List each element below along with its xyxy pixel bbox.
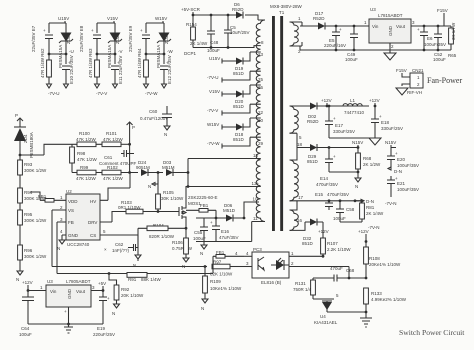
svg-text:47K 1/2W: 47K 1/2W <box>77 157 98 162</box>
junction <box>67 323 70 326</box>
svg-text:R52D: R52D <box>313 16 325 21</box>
svg-text:300K 1/2W: 300K 1/2W <box>24 218 47 223</box>
inductor L1 <box>343 98 365 115</box>
svg-text:+5V: +5V <box>98 281 106 286</box>
svg-text:+: + <box>379 114 382 119</box>
capacitor C5 <box>224 14 250 49</box>
capacitor E11 <box>111 56 123 84</box>
wire HV <box>100 173 130 201</box>
resistor R81 <box>354 199 384 222</box>
resistor R65 <box>448 22 457 58</box>
svg-text:Vin: Vin <box>372 24 379 29</box>
svg-text:-7V-W: -7V-W <box>145 91 158 96</box>
junction <box>48 53 51 56</box>
svg-text:15: 15 <box>253 153 259 158</box>
capacitor C48 <box>207 14 220 53</box>
ground <box>360 318 372 327</box>
svg-text:26: 26 <box>258 85 264 90</box>
svg-text:EL816 (B): EL816 (B) <box>261 280 282 285</box>
svg-text:L7805ABDT: L7805ABDT <box>66 279 91 284</box>
svg-text:N: N <box>57 246 60 251</box>
svg-text:2SK2225-60-E: 2SK2225-60-E <box>188 195 218 200</box>
led <box>271 258 289 270</box>
svg-text:2K 1/4W: 2K 1/4W <box>190 41 208 46</box>
svg-text:25: 25 <box>258 77 264 82</box>
ground N <box>148 180 158 189</box>
svg-text:E11 22uF/35V: E11 22uF/35V <box>118 56 123 84</box>
node N15V <box>385 140 396 148</box>
node -7V-W <box>207 137 250 148</box>
svg-text:C55: C55 <box>194 230 203 235</box>
svg-text:Switch Power Circuit: Switch Power Circuit <box>399 328 465 337</box>
wire VS <box>52 210 66 267</box>
svg-text:ZD6: ZD6 <box>66 35 71 44</box>
svg-text:DRV: DRV <box>88 220 97 225</box>
capacitor C62 <box>104 242 138 255</box>
resistor R104 <box>138 223 187 239</box>
wire <box>138 228 186 247</box>
node +12V <box>358 229 369 247</box>
svg-text:R96: R96 <box>24 248 33 253</box>
svg-text:+: + <box>333 154 336 159</box>
resistor R91 <box>127 273 162 283</box>
svg-text:+: + <box>339 27 342 32</box>
resistor R108 <box>364 240 401 279</box>
svg-text:E16: E16 <box>221 229 230 234</box>
svg-text:R107: R107 <box>327 241 338 246</box>
wire <box>28 291 103 325</box>
svg-text:+: + <box>395 151 398 156</box>
node D-N <box>388 167 402 174</box>
svg-text:-7V-N: -7V-N <box>385 201 397 206</box>
node P <box>127 122 135 144</box>
capacitor E10 <box>62 55 74 84</box>
svg-text:E15: E15 <box>315 192 324 197</box>
ic U3 L7805ABDT <box>46 279 91 307</box>
svg-text:+12V: +12V <box>369 98 380 103</box>
svg-text:-7V-V: -7V-V <box>96 91 107 96</box>
capacitor C49 <box>345 25 358 62</box>
pin 4 <box>244 251 252 256</box>
svg-text:22uF/35V E7: 22uF/35V E7 <box>31 25 36 52</box>
svg-text:CS: CS <box>90 233 96 238</box>
svg-text:V15V: V15V <box>209 89 220 94</box>
svg-text:20Ke1% 1/10W: 20Ke1% 1/10W <box>369 262 401 267</box>
resistor R98 <box>70 144 98 172</box>
ground <box>144 84 167 88</box>
optocoupler PC3 EL816 <box>252 247 289 285</box>
svg-text:2.2K 1/10W: 2.2K 1/10W <box>327 247 351 252</box>
svg-text:47R 1/4W R62: 47R 1/4W R62 <box>40 48 45 78</box>
regulator U3 L7815ABDT <box>369 7 411 47</box>
svg-text:ZD2: ZD2 <box>115 35 120 44</box>
svg-text:U4: U4 <box>320 314 326 319</box>
svg-text:100uF: 100uF <box>333 216 346 221</box>
svg-text:ZD4: ZD4 <box>23 134 28 143</box>
svg-text:R109: R109 <box>210 279 221 284</box>
svg-text:U15V: U15V <box>58 16 69 21</box>
node -7V-V <box>207 104 250 115</box>
wire <box>49 21 66 33</box>
svg-text:C61: C61 <box>104 155 113 160</box>
svg-text:29: 29 <box>258 141 264 146</box>
ground <box>64 324 73 333</box>
svg-text:N: N <box>148 184 151 189</box>
svg-text:851D: 851D <box>233 71 245 76</box>
svg-text:Vout: Vout <box>396 24 406 29</box>
resistor R95 <box>18 210 47 245</box>
resistor R109 <box>201 267 242 312</box>
resistor R96 <box>18 245 47 271</box>
resistor R102 <box>102 165 138 181</box>
capacitor E20 <box>387 148 419 169</box>
svg-text:E19: E19 <box>97 326 106 331</box>
capacitor E19 <box>93 296 115 337</box>
ground N <box>164 126 170 137</box>
node +12V <box>369 98 380 107</box>
secondary winding (right, top) <box>290 22 299 46</box>
svg-text:N15V: N15V <box>385 140 396 145</box>
capacitor E18 <box>371 106 403 138</box>
svg-text:FB1: FB1 <box>200 203 209 208</box>
svg-text:U15V: U15V <box>209 56 220 61</box>
wire VDD feed <box>30 192 40 200</box>
pin 1 <box>289 251 322 256</box>
svg-text:D-N: D-N <box>366 199 374 204</box>
svg-text:330uF/25V: 330uF/25V <box>381 126 403 131</box>
diode D06 <box>215 202 265 242</box>
svg-text:-U: -U <box>69 49 74 54</box>
svg-text:C68: C68 <box>346 268 355 273</box>
svg-text:R95: R95 <box>24 212 33 217</box>
node N15V <box>352 140 363 148</box>
ground N <box>133 255 141 268</box>
node F15V <box>396 68 410 77</box>
svg-text:E14: E14 <box>320 176 329 181</box>
resistor R92 <box>109 274 144 317</box>
svg-text:30K 1/10W: 30K 1/10W <box>161 196 184 201</box>
svg-text:100uF/35V: 100uF/35V <box>424 42 446 47</box>
phototransistor <box>258 257 264 270</box>
svg-text:+: + <box>140 28 143 33</box>
svg-text:Vout: Vout <box>76 289 86 294</box>
capacitor E17 <box>325 105 375 138</box>
svg-text:P6SMA15A: P6SMA15A <box>156 45 161 68</box>
svg-text:N15V: N15V <box>352 140 363 145</box>
svg-text:220uF/16V: 220uF/16V <box>324 43 346 48</box>
capacitor C68 <box>313 266 355 282</box>
capacitor E21 <box>387 176 419 197</box>
svg-text:W15V: W15V <box>155 16 167 21</box>
svg-text:R65: R65 <box>448 53 457 58</box>
wire <box>300 43 451 50</box>
secondary winding (right, N) <box>290 160 299 201</box>
node W15V <box>207 122 236 130</box>
zener ZD2 <box>107 33 122 69</box>
svg-text:0.75R 1W: 0.75R 1W <box>172 246 193 251</box>
ground <box>95 84 118 88</box>
zener ZD3 <box>156 33 171 69</box>
svg-text:R99: R99 <box>80 165 89 170</box>
svg-text:×: × <box>104 247 107 252</box>
diode D32 <box>302 219 323 247</box>
svg-text:V15V: V15V <box>107 16 118 21</box>
diode D03 <box>162 160 188 187</box>
resistor R101 <box>102 131 131 147</box>
svg-text:470uF: 470uF <box>330 266 343 271</box>
svg-text:Fan-Power: Fan-Power <box>427 76 462 85</box>
svg-text:470uF/35V: 470uF/35V <box>316 182 338 187</box>
svg-text:47K 1/2W: 47K 1/2W <box>76 176 97 181</box>
wire GND <box>62 235 66 240</box>
svg-text:74477410: 74477410 <box>344 110 365 115</box>
resistor R97 <box>210 260 244 277</box>
junction <box>204 265 207 268</box>
node +5V <box>98 281 106 292</box>
node P <box>15 113 23 127</box>
diode D02 <box>305 103 369 125</box>
ground <box>47 84 69 88</box>
capacitor E12 <box>160 55 172 84</box>
zener ZD6 <box>58 33 73 69</box>
svg-text:47K 1/2W: 47K 1/2W <box>103 137 124 142</box>
svg-text:851D: 851D <box>233 104 245 109</box>
svg-text:1nF(/??): 1nF(/??) <box>112 248 130 253</box>
wire DRV to gate <box>100 212 118 223</box>
resistor R99 <box>72 165 102 181</box>
resistor R106 <box>172 238 193 269</box>
resistor R103 <box>118 200 176 214</box>
svg-text:R133: R133 <box>371 291 382 296</box>
diode D24 <box>136 160 163 176</box>
ground N <box>57 240 65 251</box>
svg-text:FB: FB <box>68 220 74 225</box>
wire <box>97 21 115 33</box>
transformer core <box>272 16 275 231</box>
resistor R63 <box>88 48 99 78</box>
svg-text:R106: R106 <box>172 240 183 245</box>
svg-text:+5V-SCR: +5V-SCR <box>181 7 201 12</box>
secondary winding (right, bottom) <box>290 210 299 230</box>
capacitor E14 <box>316 148 358 188</box>
svg-text:22: 22 <box>258 110 264 115</box>
capacitor E6 <box>417 25 446 52</box>
svg-text:300K 1/2W: 300K 1/2W <box>24 254 47 259</box>
svg-text:47K 1/2W: 47K 1/2W <box>103 176 124 181</box>
svg-text:P: P <box>15 113 18 118</box>
node F15V <box>411 8 451 26</box>
capacitor C55 <box>193 218 252 242</box>
svg-text:220uF/25V: 220uF/25V <box>93 332 115 337</box>
diode D19 <box>233 52 250 76</box>
svg-text:820R 1/10W: 820R 1/10W <box>149 234 175 239</box>
svg-text:22uF/35V E8: 22uF/35V E8 <box>79 25 84 52</box>
svg-text:+12V: +12V <box>22 280 33 285</box>
svg-text:L7815ABDT: L7815ABDT <box>378 13 403 18</box>
ic U2 UCC28740 <box>66 189 100 247</box>
svg-text:47R 1/4W R64: 47R 1/4W R64 <box>137 48 142 78</box>
svg-text:100uF: 100uF <box>19 332 32 337</box>
capacitor C58 <box>333 201 362 222</box>
svg-text:F15V: F15V <box>437 8 448 13</box>
svg-text:-V: -V <box>118 49 123 54</box>
svg-text:T1: T1 <box>279 10 285 15</box>
svg-text:-7V-U: -7V-U <box>207 75 219 80</box>
pin 2 <box>289 261 349 267</box>
ground N <box>200 242 207 257</box>
wire <box>349 267 366 279</box>
svg-text:N: N <box>112 311 115 316</box>
svg-text:R154: R154 <box>186 22 197 27</box>
svg-text:DCP1: DCP1 <box>184 51 197 56</box>
resistor R64 <box>137 48 148 78</box>
svg-text:GND: GND <box>68 233 79 238</box>
node V15V <box>209 89 236 97</box>
svg-text:47R 1/4W R63: 47R 1/4W R63 <box>88 48 93 78</box>
svg-text:Vin: Vin <box>50 289 57 294</box>
wire <box>290 201 306 231</box>
ground <box>369 138 381 145</box>
capacitor E7 <box>31 25 53 52</box>
svg-text:470uF/35V: 470uF/35V <box>327 192 349 197</box>
resistor R105 <box>156 171 184 213</box>
svg-text:47K 1/2W: 47K 1/2W <box>76 137 97 142</box>
svg-text:10Ke1% 1/10W: 10Ke1% 1/10W <box>210 286 242 291</box>
wire <box>193 12 258 48</box>
capacitor E9 <box>128 25 150 52</box>
svg-text:851D: 851D <box>307 159 319 164</box>
svg-text:N: N <box>201 306 204 311</box>
wire <box>146 70 164 85</box>
resistor R133 <box>364 288 407 318</box>
svg-text:+: + <box>210 220 213 225</box>
svg-text:E17: E17 <box>335 123 344 128</box>
wire <box>146 39 164 65</box>
svg-text:-7V-N: -7V-N <box>368 225 380 230</box>
svg-text:+: + <box>91 28 94 33</box>
svg-text:R98: R98 <box>77 151 86 156</box>
resistor R107 <box>321 234 352 258</box>
svg-text:0.47uF/1200V: 0.47uF/1200V <box>140 116 168 121</box>
transistor MOS1 2SK2225-60-E <box>176 159 255 229</box>
node U15V <box>209 56 236 64</box>
svg-text:100uF/35V: 100uF/35V <box>397 163 419 168</box>
svg-text:3K 1/7W: 3K 1/7W <box>451 22 456 40</box>
svg-text:C48: C48 <box>210 40 219 45</box>
ground N <box>16 271 23 282</box>
junction <box>96 53 99 56</box>
svg-text:U3: U3 <box>370 7 376 12</box>
svg-text:KIA431AEL: KIA431AEL <box>314 320 338 325</box>
resistor R94 <box>18 188 47 210</box>
capacitor E8 <box>79 25 101 52</box>
svg-text:N: N <box>200 251 203 256</box>
ground <box>396 88 408 95</box>
node +12V <box>22 280 33 292</box>
svg-text:R105: R105 <box>163 190 174 195</box>
svg-text:R131: R131 <box>295 281 306 286</box>
junction <box>348 277 351 280</box>
zener ZD4 <box>14 127 34 158</box>
wire <box>97 70 115 85</box>
svg-text:-7V-V: -7V-V <box>207 108 218 113</box>
capacitor E5 <box>324 25 346 52</box>
svg-text:N: N <box>355 184 358 189</box>
svg-text:+: + <box>417 27 420 32</box>
svg-text:R81: R81 <box>366 205 375 210</box>
svg-text:17: 17 <box>298 195 304 200</box>
diode D17 <box>300 11 369 30</box>
svg-text:+: + <box>64 309 67 314</box>
svg-text:D-N: D-N <box>394 169 402 174</box>
diode D6 <box>232 2 244 19</box>
resistor R100 <box>72 131 102 147</box>
diode D20 <box>233 85 250 109</box>
svg-text:+: + <box>333 116 336 121</box>
capacitor C61 <box>99 144 137 172</box>
svg-text:+12V: +12V <box>321 98 332 103</box>
svg-text:GND: GND <box>388 25 393 36</box>
svg-text:100uF/35V: 100uF/35V <box>397 187 419 192</box>
svg-text:-7V-W: -7V-W <box>207 141 220 146</box>
svg-text:R68: R68 <box>363 156 372 161</box>
svg-text:VS: VS <box>68 208 74 213</box>
svg-text:PC3: PC3 <box>253 247 262 252</box>
svg-text:10: 10 <box>253 197 259 202</box>
svg-text:MX8-380V-28W: MX8-380V-28W <box>270 4 303 9</box>
wire <box>20 144 72 160</box>
node -7V-U <box>207 71 250 82</box>
wire <box>290 148 306 201</box>
svg-text:UCC28740: UCC28740 <box>67 242 90 247</box>
wire <box>49 39 66 65</box>
capacitor C64 <box>19 297 34 337</box>
svg-text:4.99Ke2% 1/10W: 4.99Ke2% 1/10W <box>371 297 407 302</box>
diode D18 <box>233 118 250 142</box>
wire <box>97 39 115 65</box>
wire <box>52 267 213 274</box>
svg-text:23: 23 <box>258 52 264 57</box>
node D-N <box>360 199 374 204</box>
resistor R93 <box>18 160 47 188</box>
svg-text:E10 22uF/35V: E10 22uF/35V <box>69 55 74 84</box>
svg-text:P: P <box>132 125 135 130</box>
primary winding (left) <box>256 20 265 222</box>
svg-text:300K 1/2W: 300K 1/2W <box>24 168 47 173</box>
wire <box>290 22 303 46</box>
junction <box>108 272 111 275</box>
svg-text:100uF: 100uF <box>433 57 446 62</box>
svg-text:N: N <box>164 132 167 137</box>
svg-text:VDD: VDD <box>68 199 78 204</box>
wire CS <box>100 235 138 248</box>
junction <box>145 53 148 56</box>
ferrite bead FB1 <box>38 194 66 202</box>
svg-text:+12V: +12V <box>318 229 329 234</box>
svg-text:P6SMA15A: P6SMA15A <box>107 45 112 68</box>
svg-text:47uF/35V: 47uF/35V <box>219 235 239 240</box>
svg-text:W15V: W15V <box>207 122 219 127</box>
wire <box>49 70 66 85</box>
junction <box>192 14 195 17</box>
svg-text:E21: E21 <box>397 181 406 186</box>
svg-text:+: + <box>107 296 110 301</box>
svg-text:+12V: +12V <box>358 229 369 234</box>
svg-text:-W: -W <box>167 49 173 54</box>
svg-text:100uF: 100uF <box>193 236 206 241</box>
svg-text:R92: R92 <box>121 287 130 292</box>
capacitor C52 <box>433 25 446 62</box>
